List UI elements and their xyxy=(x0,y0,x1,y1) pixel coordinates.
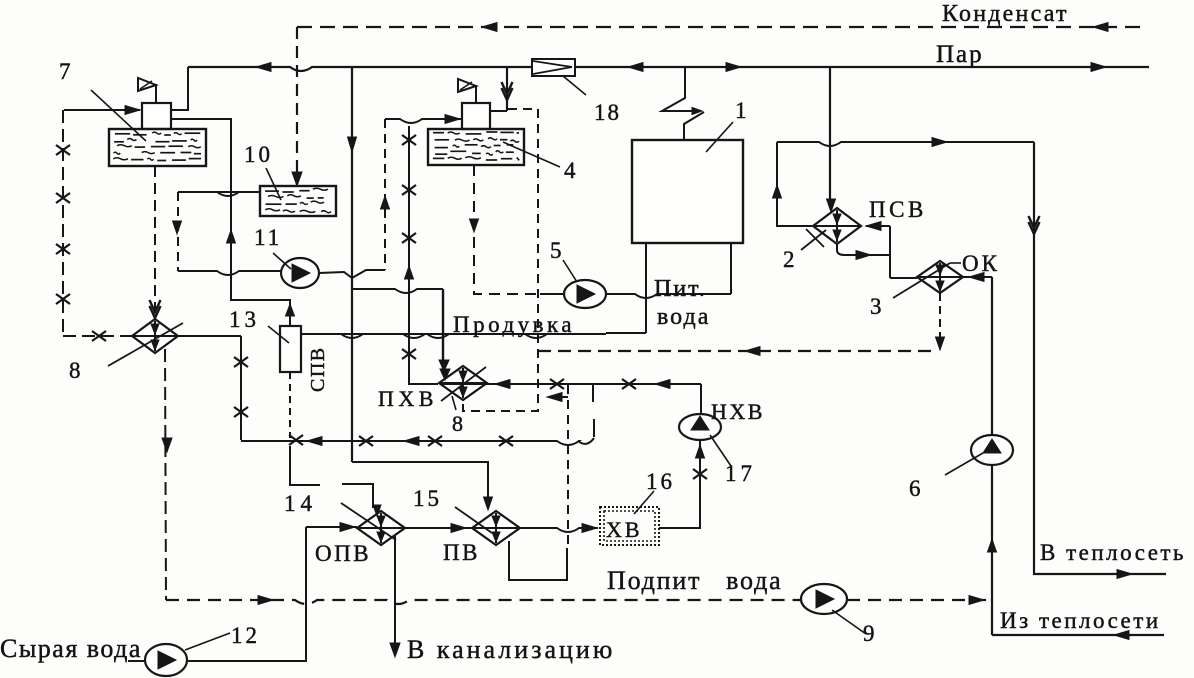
leader line for 4 xyxy=(503,142,560,167)
wire condensate main (Конденсат), dashed xyxy=(297,26,1145,28)
svg-text:12: 12 xyxy=(231,623,260,648)
valve y441 #3 xyxy=(428,436,442,446)
arrow right on makeup line 2 xyxy=(969,596,984,605)
svg-text:7: 7 xyxy=(59,59,71,84)
svg-text:СПВ: СПВ xyxy=(307,346,329,392)
arrow up on riser x409 xyxy=(405,266,414,279)
boiler blowdown stub xyxy=(645,243,647,333)
svg-text:3: 3 xyxy=(870,294,882,319)
heater ПСВ 2 xyxy=(813,208,861,244)
leader line for 1 xyxy=(706,122,733,152)
pump 5 (feed pump) xyxy=(564,280,606,308)
leader line for 7 xyxy=(91,90,146,141)
valve y441 #1 xyxy=(289,435,303,445)
valve on left header 3 xyxy=(56,244,70,254)
tank 10 (drain tank) xyxy=(260,186,336,216)
leader line for 10 xyxy=(266,168,281,200)
wire vapour return dashed from deaerator 4 xyxy=(463,109,538,411)
wire steam main (Пар) xyxy=(188,67,1149,71)
wire pump 11 discharge xyxy=(319,272,352,278)
wire condensate drop to tank 10, dashed xyxy=(296,27,298,184)
arrow on steam line far right xyxy=(1091,63,1106,72)
svg-text:Пар: Пар xyxy=(936,41,984,68)
cooler 8 diamond xyxy=(132,319,178,353)
arrow into column 4 left xyxy=(445,115,460,124)
heater ПВ 15 xyxy=(472,511,520,545)
arrow into ПСВ 2 top xyxy=(827,199,836,212)
arrow on condensate line middle xyxy=(482,23,497,32)
wire ОПВ drain В канализацию xyxy=(394,536,396,655)
wire steam tap into deaerator 7 column xyxy=(171,67,188,110)
wire feed into deaerator 7 column left xyxy=(64,109,140,111)
wire drop x241 xyxy=(240,336,242,440)
zigzag steam lead from boiler xyxy=(662,67,698,111)
svg-text:4: 4 xyxy=(564,158,576,183)
leader line for 16 xyxy=(634,491,654,514)
wire Из теплосети xyxy=(992,634,1164,636)
leader line for 9 xyxy=(832,610,866,634)
wire raw water to ОПВ xyxy=(306,526,357,528)
wire heated network water out y142 xyxy=(777,142,1034,146)
svg-text:6: 6 xyxy=(909,476,921,501)
slash through ПХВ xyxy=(441,367,486,401)
arrow chevrons into deaerator 4 xyxy=(502,88,513,100)
arrow down to pump 11 suction xyxy=(173,221,182,234)
svg-text:8: 8 xyxy=(69,358,81,383)
valve on left header 4 xyxy=(56,294,70,304)
flag vent of deaerator 4 xyxy=(475,85,477,103)
wire steam drop into deaerator 4 xyxy=(506,67,508,111)
slash through cooler 8 xyxy=(108,323,183,366)
svg-text:вода: вода xyxy=(657,304,710,330)
wire ПВ to ХВ box xyxy=(520,528,598,532)
svg-text:5: 5 xyxy=(550,238,562,263)
svg-text:Из теплосети: Из теплосети xyxy=(1000,608,1161,633)
wire drain tank7 to cooler 8, dashed xyxy=(154,166,156,314)
column of deaerator 4 xyxy=(462,103,490,129)
arrow down on tank4 drain xyxy=(470,219,479,232)
leader tick ПХВ xyxy=(452,396,456,410)
heater ПХВ 8 xyxy=(439,366,487,400)
wire header corner to ПВ heater xyxy=(352,462,488,508)
valve y384 #1 xyxy=(550,379,564,389)
svg-text:ПХВ: ПХВ xyxy=(378,386,438,411)
wire network return riser x992 xyxy=(991,277,993,435)
svg-text:ХВ: ХВ xyxy=(606,517,643,542)
wire ОК condensate drain dashed xyxy=(939,293,941,348)
wire ПСВ drain zigzag to ОК xyxy=(837,244,890,255)
valve on left header 2 xyxy=(56,193,70,203)
valve y441 #4 xyxy=(499,436,513,446)
arrow up into junction above СПВ xyxy=(286,304,295,316)
valve on riser x409 #2 xyxy=(402,185,416,195)
leader line for 13 xyxy=(268,326,289,343)
wire feed water line to boiler xyxy=(606,294,731,298)
pump 11 xyxy=(281,258,319,288)
svg-text:2: 2 xyxy=(783,247,795,272)
wire ПВ loop xyxy=(509,541,567,580)
arrow left y441 #1 xyxy=(307,437,322,446)
wire pump 11 suction xyxy=(178,271,281,275)
arrow up on x385 xyxy=(381,196,390,209)
arrow into ОПВ top xyxy=(373,505,381,516)
arrow up on riser x992 xyxy=(988,539,997,552)
svg-text:15: 15 xyxy=(413,486,442,511)
wire ПВ cooling return dashed x568 xyxy=(567,385,569,550)
valve on riser x409 #1 xyxy=(402,135,416,145)
svg-text:16: 16 xyxy=(646,469,675,494)
svg-text:8: 8 xyxy=(452,411,463,436)
arrow into ПХВ upper edge xyxy=(439,360,449,371)
svg-text:Продувка: Продувка xyxy=(453,312,575,337)
wire branch СПВ to ОПВ xyxy=(290,446,320,485)
wire into pump 5 xyxy=(540,293,565,295)
slash through ПВ 15 xyxy=(455,507,492,533)
arrow into ПВ heater top xyxy=(484,497,493,510)
svg-text:Конденсат: Конденсат xyxy=(942,1,1069,27)
arrow up into pump 17 xyxy=(696,445,705,458)
svg-text:14: 14 xyxy=(284,491,317,516)
wire condensate return dashed y351 xyxy=(538,350,938,352)
wire tank10 outlet drop, dashed xyxy=(177,192,179,271)
valve y384 #2 xyxy=(622,379,636,389)
valve x241 #1 xyxy=(234,357,248,367)
box СПВ 13 (blowdown separator) xyxy=(280,326,301,372)
leader line for 18 xyxy=(563,76,586,95)
pump 9 (makeup pump) xyxy=(801,584,847,614)
arrow right on y142 xyxy=(932,138,947,147)
pump 6 (network pump) xyxy=(971,435,1013,465)
svg-text:НХВ: НХВ xyxy=(711,399,765,424)
svg-text:11: 11 xyxy=(254,225,282,250)
svg-text:Подпит вода: Подпит вода xyxy=(607,566,782,595)
wire network water loop x777 xyxy=(777,142,812,226)
svg-text:Пит.: Пит. xyxy=(654,276,707,302)
slash through ОК 3 xyxy=(893,263,950,298)
boiler 1 xyxy=(632,140,743,243)
arrow up on x777 xyxy=(773,185,782,198)
arrow up on riser x231 xyxy=(227,230,236,243)
wire pump12 discharge to ОПВ xyxy=(187,527,306,661)
wire tank10 to pump 11 xyxy=(178,192,260,196)
wire steam drop to ПСВ 2 xyxy=(829,67,831,202)
svg-text:ОПВ: ОПВ xyxy=(315,541,371,566)
arrow into cooler 8 top xyxy=(150,306,161,318)
arrow left on y384 near ПХВ xyxy=(495,380,510,389)
leader line for 12 xyxy=(185,633,230,650)
wire В теплосеть xyxy=(1034,142,1166,574)
svg-text:Сырая вода: Сырая вода xyxy=(0,634,142,663)
valve below pump 17 xyxy=(693,469,707,479)
wire raw water inlet xyxy=(128,660,145,662)
svg-text:1: 1 xyxy=(735,98,747,123)
leader line for 11 xyxy=(273,253,291,269)
tank of deaerator 7 xyxy=(109,129,206,166)
slash through ПСВ 2 xyxy=(801,230,826,250)
arrow down on header x352 xyxy=(348,137,357,152)
slash through ОПВ 14 xyxy=(341,503,396,540)
wire cooling drop to ПХВ xyxy=(442,289,444,370)
pump 12 (raw water pump) xyxy=(145,644,187,676)
wire feed line into column 4 xyxy=(385,119,462,123)
wire ОПВ to ПВ xyxy=(405,527,472,529)
wire makeup water dashed (Подпит вода) xyxy=(166,600,801,604)
flag vent of deaerator 7 xyxy=(155,84,157,104)
arrow into tank 10 xyxy=(292,172,302,186)
svg-text:ОК: ОК xyxy=(962,251,1000,276)
valve on riser x409 #4 xyxy=(402,349,416,359)
arrow into deaerator 7 column xyxy=(125,106,140,115)
arrow right on makeup line xyxy=(258,596,273,605)
wire pump 17 suction xyxy=(699,440,701,528)
wire blowdown header from steam line xyxy=(351,67,353,462)
column of deaerator 7 xyxy=(142,103,171,129)
leader line for 17 xyxy=(710,435,731,466)
valve before cooler 8 xyxy=(92,331,106,341)
valve on riser x409 #3 xyxy=(402,233,416,243)
heater ОПВ 14 xyxy=(357,511,405,545)
wire ОК to network riser xyxy=(963,276,992,278)
arrow on condensate line right xyxy=(1093,23,1108,32)
heater ОК 3 xyxy=(917,261,963,293)
wire left header down (dash-dot) xyxy=(62,110,64,336)
wire recirc branch elbow xyxy=(352,270,385,278)
arrow on steam line left of boiler xyxy=(628,63,643,72)
arrow down on В теплосеть riser xyxy=(1029,222,1040,234)
wire tank4 drain to feed pump 5 xyxy=(474,165,540,294)
wire cooler8 drain dashed x167 xyxy=(165,349,166,600)
wire cooling water line y441 xyxy=(241,441,579,445)
svg-text:В теплосеть: В теплосеть xyxy=(1040,540,1186,565)
arrow on steam line toward deaerators xyxy=(256,63,271,72)
wire left header to cooler 8 xyxy=(63,335,132,337)
wire into column 4 right xyxy=(491,110,507,112)
wire recirc branch x385 dashed xyxy=(384,119,386,270)
svg-text:10: 10 xyxy=(244,142,273,167)
wire СПВ bottom stub xyxy=(289,372,291,438)
arrow left on condensate return xyxy=(745,347,760,356)
boiler feed stub right xyxy=(730,243,732,294)
wire branch to vapour line xyxy=(549,396,568,398)
wire riser to pump 17 xyxy=(700,384,702,414)
valve on left header 1 xyxy=(56,145,70,155)
svg-text:13: 13 xyxy=(229,307,260,332)
wire deaerator7 column to riser xyxy=(171,119,290,326)
wire blowdown to СПВ (Продувка) xyxy=(301,334,606,338)
valve x241 #2 xyxy=(234,407,248,417)
svg-text:В канализацию: В канализацию xyxy=(407,635,615,664)
valve y441 #2 xyxy=(359,436,373,446)
arrow left y441 #2 xyxy=(404,437,419,446)
wire header branch y289 xyxy=(352,289,443,293)
wire heated-water riser x409 xyxy=(409,126,438,384)
svg-text:ПСВ: ПСВ xyxy=(869,197,927,222)
pump 17 (НХВ pump) xyxy=(679,414,721,440)
arrow down on x167 xyxy=(162,438,172,452)
wire treated water line y384 xyxy=(440,383,701,385)
tank of deaerator 4 xyxy=(428,129,524,165)
wire ХВ to riser xyxy=(659,527,700,529)
venturi nozzle 18 on steam line xyxy=(532,59,575,76)
wire stub x593 dashed xyxy=(592,385,594,402)
svg-text:18: 18 xyxy=(594,100,621,125)
leader line for 5 xyxy=(563,260,577,282)
svg-text:ПВ: ПВ xyxy=(443,540,480,565)
wire cooler8 right outlet xyxy=(178,335,241,337)
leader line for 6 xyxy=(945,453,983,475)
arrow left on y384 right xyxy=(655,380,670,389)
tank ХВ 16 (treated water) xyxy=(600,507,659,545)
arrow on steam line right of boiler xyxy=(726,63,741,72)
